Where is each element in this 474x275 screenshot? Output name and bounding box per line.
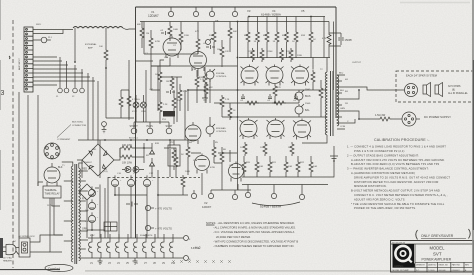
wire caps drop [115,187,147,195]
driver labels cluster [137,24,237,106]
tube V7 [267,118,284,139]
wire input feed left [128,60,130,120]
TP E heater [184,256,189,261]
svg-text:CONTROL: CONTROL [216,76,227,78]
ground right [330,146,338,161]
cathode bus 2 [242,184,328,186]
heater loop V3 [107,238,110,258]
filter cap C103 [88,186,95,196]
trimpot VR2 [295,104,304,117]
speaker SP1 [423,83,431,97]
wire rg3 [221,40,223,67]
svg-text:6146B / 8299A: 6146B / 8299A [260,205,282,209]
sense resistor R10c [268,156,272,177]
grid resistor R22 [251,48,255,62]
wire drop to ext amp jack [105,28,107,48]
svg-text:3: 3 [1,90,5,97]
svg-text:SVT: SVT [433,252,442,257]
svg-text:3 — PHASE INVERTER BALANCE CO: 3 — PHASE INVERTER BALANCE CONTROL ADJUS… [347,167,429,171]
mid bus 3 [222,116,326,118]
wire resistors right [120,143,152,163]
svg-text:V5: V5 [301,9,305,13]
resistor Rfb2 [311,58,315,91]
svg-text:CONNECTOR: CONNECTOR [72,125,86,127]
wire bridge right [114,148,120,160]
wire rg4 [229,22,231,53]
resistor Rd1 [170,76,174,90]
svg-text:EXTERNAL: EXTERNAL [85,43,97,46]
wire drop from bundle [74,28,76,62]
sense resistor R10d [284,156,288,177]
wire v1 grid line [144,22,238,67]
wire rk3 [159,90,161,124]
tube V4 pins [266,67,284,84]
svg-text:1.5Ω 4W: 1.5Ω 4W [375,113,386,117]
svg-text:BUS SGNL: BUS SGNL [72,122,84,124]
resistor Rgrid in2 [127,90,131,118]
title divider [414,244,416,272]
svg-text:470R: 470R [132,111,137,113]
cap Ck1 [166,90,175,94]
svg-text:10Ω: 10Ω [313,166,317,168]
svg-text:BLK-RD-L: BLK-RD-L [129,138,139,140]
svg-text:HEATER: HEATER [3,260,12,263]
resistor Rd3 [195,70,199,103]
svg-text:3.3K: 3.3K [183,91,188,93]
filter cap C105 [88,212,95,222]
thermal relay tube V10 [44,163,60,186]
screen resistor R19 [285,17,289,59]
heater loop V1 [89,238,92,258]
wire v1 mids [151,58,205,112]
cathode bus 1 [242,176,328,178]
AC interlock box [19,238,30,257]
wire input top bus [140,21,249,23]
tube V6 pins [240,120,258,137]
T2 secondary winding [337,75,339,126]
title block top strip [391,243,474,245]
sense resistor R10e [296,156,300,177]
speaker connector J10 [405,84,418,97]
screen resistor R15 [246,17,250,59]
edge blob [0,238,3,258]
power transformer T1 core [75,164,77,264]
wire scallop tail [123,28,129,29]
wire below resistor [105,62,107,68]
cap Cout1 [241,94,247,99]
svg-text:1N4007: 1N4007 [84,162,92,164]
tube V3 pins [241,67,259,84]
svg-text:AMPEG: AMPEG [394,264,403,268]
top faint streak [400,2,470,4]
ground g1 [202,94,208,102]
resistor Rbus2 [272,101,286,105]
cathode resistor Rc3 [290,142,294,156]
AC plug P1 [3,244,17,255]
heater bus bottom [88,257,183,259]
TP1 circle [245,185,250,198]
ampeg black bar [393,264,416,268]
svg-text:10K 10W: 10K 10W [122,144,133,147]
svg-text:10K 10W: 10K 10W [122,162,133,165]
svg-text:V6: V6 [215,19,219,23]
tube V3 [241,65,258,86]
wire bus right1 [324,17,333,91]
svg-text:B-ADJUST VR1 FOR ZERO (0,0) V: B-ADJUST VR1 FOR ZERO (0,0) VOLTS BETWEE… [351,162,440,166]
TP circle C2 [209,7,214,17]
cap Cout2 [268,94,274,99]
svg-text:220K: 220K [297,55,303,57]
TP C plus470 [145,205,154,210]
wire drop pc1 [99,140,101,238]
svg-text:034000/2: 034000/2 [452,270,460,272]
wire rg1 [150,30,152,66]
svg-text:10Ω: 10Ω [288,166,292,168]
wire drop pc5 [158,148,170,238]
svg-text:- NUMBERS IN PARENTHESES REFER: - NUMBERS IN PARENTHESES REFER TO AMPLIF… [213,244,294,248]
heater loop V10 [170,238,173,258]
svg-text:V10: V10 [171,263,176,265]
wire relay to transformer [38,182,60,206]
tube V1a [163,36,181,58]
lamp X2 [141,102,147,108]
jack J1 [58,88,63,93]
svg-text:TIME RELAY: TIME RELAY [45,192,60,196]
dashed speaker box [396,71,473,102]
tube V5 pins [291,67,309,84]
svg-text:470K: 470K [210,167,216,169]
plate bus upper [239,57,330,59]
svg-text:OUTPUT: OUTPUT [352,62,362,64]
bridge rectifier D1-D4 [82,144,114,176]
svg-text:POWER AMPLIFIER: POWER AMPLIFIER [422,257,452,261]
svg-text:6146B / 8298A: 6146B / 8298A [261,13,281,17]
svg-text:V2B: V2B [229,165,234,167]
wire bundle top [33,30,73,34]
ground heater 2 [133,258,138,264]
dashed divider power [108,177,200,179]
main HT rail [78,139,197,141]
svg-text:A-(HARMONIC DISTORTION METER M: A-(HARMONIC DISTORTION METER METHOD) [351,171,415,175]
svg-text:BAL: BAL [305,109,310,112]
wire nfb link [329,33,341,46]
resistor Rd6 [228,103,232,120]
svg-text:CONTROL: CONTROL [216,131,227,133]
tube V2a [195,154,210,174]
svg-text:150PF: 150PF [345,38,353,42]
cable scallops [73,27,123,29]
svg-text:BLU: BLU [339,73,344,75]
svg-text:220K: 220K [249,51,255,53]
heater loop V5 [125,238,128,258]
wire rk4 [173,90,175,124]
filter cap C104 [88,199,95,209]
TP circle A [168,7,173,17]
resistor Rv2b [212,140,216,163]
resistor Rg1 [149,36,153,50]
svg-text:V2A: V2A [193,159,198,162]
TP circle D2 [232,7,237,17]
svg-text:(2,9): (2,9) [103,171,108,173]
T1 top lead [62,162,83,168]
screen resistor R21 [309,17,313,59]
svg-text:1.2K: 1.2K [200,79,205,81]
DC power connector J11 [402,112,420,126]
svg-text:2.2K: 2.2K [163,104,168,106]
resistor Rk4 [172,96,176,110]
svg-text:47K: 47K [277,87,281,89]
svg-text:68K: 68K [137,24,141,26]
svg-text:- D.C. VOLTAGE READINGS WITH N: - D.C. VOLTAGE READINGS WITH NO SIGNAL A… [213,230,295,234]
terminal strip TS1 [24,27,33,92]
resistor Rbus1 [245,101,259,105]
svg-text:12K: 12K [225,51,229,53]
svg-text:Crawford: Crawford [48,267,61,271]
svg-text:#2 PRESENT: #2 PRESENT [57,139,71,141]
wire fan verticals [60,57,98,140]
svg-text:NOTES: - ALL RESISTORS 1/4 10%: NOTES: - ALL RESISTORS 1/4 10%, UNLESS O… [206,221,295,225]
svg-text:+ 470 VOLTS: + 470 VOLTS [155,227,172,231]
svg-text:47K: 47K [209,87,213,89]
labels heater tubes [90,263,176,265]
resistor Rfb3 [319,80,323,117]
svg-text:R24 BIAS: R24 BIAS [216,127,226,130]
wire net d2 [160,77,210,140]
junction dots net [74,16,312,231]
svg-text:56K: 56K [233,31,237,33]
tube V7 pins [267,120,285,137]
svg-text:2 — OUTPUT STAGE BIAS CURRENT: 2 — OUTPUT STAGE BIAS CURRENT ADJUSTMENT… [347,153,419,157]
ampeg logo [393,244,415,264]
title block frame [391,241,474,273]
resistor Rd5 [220,95,224,117]
svg-text:CALIBRATION PROCEDURE :-: CALIBRATION PROCEDURE :- [374,138,430,142]
svg-text:MINIMUM DISTORTION.: MINIMUM DISTORTION. [354,184,387,188]
svg-text:DISTORTION METER TO LOAD RESIS: DISTORTION METER TO LOAD RESISTOR. ADJUS… [354,180,439,184]
svg-text:THERMAL: THERMAL [45,188,58,192]
svg-text:1M: 1M [146,33,149,35]
svg-text:6.3V: 6.3V [90,235,95,237]
left scan edge marks [0,0,2,210]
svg-text:SW1: SW1 [36,24,42,26]
wire input to box [106,68,134,118]
svg-text:7-24-69: 7-24-69 [428,270,435,272]
power labels cluster [13,142,234,243]
resistor R101 10K10W [120,146,134,150]
TP5 circle [232,190,237,200]
wire bias area [87,188,105,230]
svg-text:6.3V FIL: 6.3V FIL [191,248,200,250]
tube V2b [229,162,244,182]
wire v2 col extras [191,150,237,190]
cap Cout3 [294,94,300,99]
svg-text:4.7K: 4.7K [322,38,327,40]
wire bridge left [77,160,82,178]
resistor Rv2d [174,155,178,177]
wires strip to right fanout [33,57,95,85]
svg-text:BIAS: BIAS [305,95,311,98]
resistor Rk1 [158,70,162,84]
svg-text:BLK: BLK [340,90,345,92]
heater stubs up [92,234,173,238]
brace 6146 [252,202,300,206]
svg-text:* THE LOAD RESISTOR SHOULD BE: * THE LOAD RESISTOR SHOULD BE ABLE TO DI… [351,202,445,206]
input TP F2 [147,128,153,134]
svg-text:117 V AC: 117 V AC [3,257,12,260]
svg-text:PART NO: PART NO [452,263,461,266]
resistor Rv2c [220,147,224,170]
svg-text:ONLY GREY/SILVER: ONLY GREY/SILVER [421,234,454,238]
cathode resistor Rc2 [263,142,267,156]
right scan edge dark [472,60,474,230]
wire nfb top [240,21,329,23]
tube V1b [190,50,207,72]
crawford note [45,264,73,271]
cap Cpc [126,202,138,207]
cap Cnfb [338,33,344,45]
svg-text:330K: 330K [209,35,215,37]
resistor Rv2e [181,175,185,195]
wire ra3 [197,22,199,55]
bias bridge D7 [79,184,95,200]
svg-text:ALL IN PARALLEL: ALL IN PARALLEL [448,92,468,95]
TP3 circle [299,185,304,200]
svg-text:R14 BAL: R14 BAL [216,72,226,75]
T1 secondary taps [79,171,88,258]
tube V4 [266,65,283,86]
svg-text:4Ω: 4Ω [345,79,348,81]
label lamps [132,111,146,113]
dashed chassis line [12,20,14,268]
svg-text:DRIVE AMPLIFIER TO 20 VOLTS: DRIVE AMPLIFIER TO 20 VOLTS R.M.S. OUT A… [354,175,450,179]
resistor Rk2 [203,72,207,86]
resistor Rgrid in1 [119,90,123,118]
wire rg2 [213,22,215,55]
svg-text:POWER OF THE AMPLIFIER, OR: POWER OF THE AMPLIFIER, OR 350 WATTS. [354,206,416,210]
cathode resistor Rc1 [243,142,247,156]
svg-text:V3: V3 [247,9,251,13]
tube V5 [292,65,309,86]
trimpot VR1 [295,90,304,103]
wire rp1 [169,22,171,42]
svg-text:DATE NO: DATE NO [428,263,437,266]
resistor Rg4 [228,26,232,40]
tube V8 pins [293,121,311,138]
svg-text:DRWN BY: DRWN BY [416,264,426,266]
T2 primary leads [302,58,327,144]
heater loop V4 [116,238,119,258]
svg-text:V1A: V1A [164,56,169,59]
wire drop pc2 [107,140,109,238]
wire bus-to-ground [328,156,334,177]
svg-text:COM: COM [340,126,345,128]
grid resistor R23 [260,48,264,62]
svg-text:CONNECT D.C. VOLT METER BETW: CONNECT D.C. VOLT METER BETWEEN FILTERED… [354,193,448,197]
svg-text:AMP: AMP [88,47,93,50]
resistor ext amp [104,48,108,62]
heater bus top [88,237,183,239]
tube V1c [185,122,201,144]
input TP G [166,128,172,134]
bottom border light [85,270,474,272]
sense resistor R10a [242,156,246,177]
output transformer labels [320,62,362,123]
bottom border dark left [0,269,60,271]
power transformer T1 primary winding [71,166,73,262]
svg-text:1M: 1M [217,49,220,51]
svg-text:12DW7: 12DW7 [202,205,212,209]
svg-text:100K: 100K [173,29,179,31]
filter cap C100 [111,175,118,186]
label bal control [216,72,227,78]
resistor R1ohm [370,117,402,121]
wire bridge top rail [97,140,99,144]
wire drop pc3 [118,187,120,238]
filter cap C102 [143,175,150,186]
cap Cc2 [206,45,215,49]
wire rk1 [160,60,164,90]
svg-text:350V: 350V [85,221,91,223]
svg-text:39K: 39K [177,100,181,102]
screen resistor R16 [256,17,260,59]
resistor Rmid [273,84,277,103]
power transformer T1 secondary winding [79,168,81,261]
wire rin1 [141,22,143,49]
pot R9 [206,38,213,45]
pointer bus sgnl [57,125,71,138]
svg-text:12DW7: 12DW7 [148,14,159,18]
jack J4 [80,88,85,93]
screen bus [249,16,325,18]
svg-text:250Ω: 250Ω [305,103,311,105]
svg-text:GRN: GRN [340,108,345,110]
wire relay drop 2 [54,198,63,235]
mid bus 1 [188,89,326,91]
wire net d1 [136,66,177,122]
wire relay drop 1 [50,198,62,252]
tube V6 [240,118,257,139]
svg-text:ADJUST VR3 FOR ZERO D.C. V: ADJUST VR3 FOR ZERO D.C. VOLTS [354,197,405,201]
wire TP drops [134,122,169,128]
svg-text:REDR. NO: REDR. NO [439,264,449,266]
wire v2 area [158,140,251,195]
diode stack D6 [150,146,155,170]
wire stub border [129,29,153,61]
svg-text:MODEL: MODEL [430,246,446,251]
svg-text:PINS 2 & 5 OF CONNECTOR P2: PINS 2 & 5 OF CONNECTOR P2 (2,1) [354,149,405,153]
sense resistor R10f [309,156,313,177]
filter cap C101 [127,175,134,186]
ink mark comma [8,56,11,59]
wire interlock to transformer [30,235,62,252]
svg-text:82Ω: 82Ω [155,143,159,145]
wire rail to v2 [188,140,222,175]
right scan edge [472,0,474,275]
tube V8 [294,119,311,140]
pot BIAS control [206,124,215,137]
svg-text:470K: 470K [155,41,161,43]
divider wire [237,22,239,190]
wire center drops [131,170,158,238]
TP F heater [184,236,189,241]
sense resistor R10b [255,156,259,177]
svg-text:AC: AC [13,240,16,243]
TP4 circle [208,190,213,199]
TP circle B [193,7,198,17]
TP D plus540 [145,225,154,230]
wire horizontal pc6 [87,230,105,238]
label bias control [216,127,227,133]
